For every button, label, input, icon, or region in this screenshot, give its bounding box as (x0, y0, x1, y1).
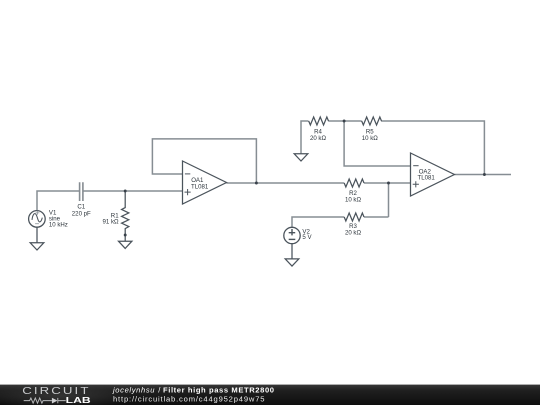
wire OA2 output (454, 174, 511, 176)
ground below R1 (119, 241, 132, 248)
op-amp OA1 (183, 161, 227, 204)
svg-text:jocelynhsu: jocelynhsu (112, 385, 155, 394)
label R5 (362, 128, 379, 142)
resistor R5 (362, 117, 382, 125)
svg-text:20 kΩ: 20 kΩ (345, 229, 362, 236)
label R3 (345, 223, 362, 236)
label V2 (302, 228, 312, 241)
ground below V1 (30, 227, 44, 250)
svg-text:220 pF: 220 pF (72, 210, 91, 217)
footer bar (0, 383, 540, 405)
wire top rail R4 R5 (301, 121, 484, 175)
node dot R4/R5 junction (343, 120, 346, 123)
svg-text:TL081: TL081 (418, 175, 436, 182)
node dot OA2 output (483, 173, 486, 176)
label R1 (103, 212, 120, 225)
label R4 (310, 128, 327, 142)
resistor R1 (122, 191, 129, 241)
svg-text:5 V: 5 V (302, 234, 312, 241)
svg-text:10 kHz: 10 kHz (49, 221, 68, 228)
wire R2/R3 junction vertical (364, 183, 389, 217)
resistor R2 (344, 179, 364, 187)
voltage source V2 (284, 227, 300, 243)
label C1 (72, 203, 91, 217)
wire OA1 feedback loop (152, 139, 256, 183)
op-amp OA2 (411, 153, 455, 196)
node dot R2/R3 junction (387, 182, 390, 185)
svg-text:Filter high pass METR2800: Filter high pass METR2800 (163, 385, 274, 394)
svg-text:91 kΩ: 91 kΩ (103, 218, 120, 225)
resistor R4 (309, 117, 329, 125)
svg-text:10 kΩ: 10 kΩ (362, 135, 379, 142)
wire input net V1/C1/R1 to OA1 + (37, 191, 183, 211)
svg-text:C1: C1 (77, 203, 85, 210)
svg-text:LAB: LAB (66, 395, 91, 405)
node dot OA1 output (255, 182, 258, 185)
node dot R1 top (124, 190, 127, 193)
label R2 (345, 190, 362, 204)
voltage source V1 sine (29, 211, 46, 228)
ground below R4 (294, 154, 308, 161)
resistor R3 (344, 213, 364, 221)
svg-text:TL081: TL081 (191, 184, 209, 191)
svg-text:http://circuitlab.com/c44g952p: http://circuitlab.com/c44g952p49w75 (113, 395, 265, 404)
label OA1 (191, 177, 209, 191)
logo wire resistor diode (24, 398, 66, 403)
node dot R1 bottom (124, 234, 127, 237)
svg-text:20 kΩ: 20 kΩ (310, 135, 327, 142)
wire OA1 output to R2 to OA2 + (227, 182, 411, 184)
svg-text:10 kΩ: 10 kΩ (345, 196, 362, 203)
capacitor C1 (80, 182, 83, 201)
label OA2 (418, 168, 436, 181)
label V1 (49, 209, 68, 228)
wire R4/R5 junction to OA2 - input (344, 121, 410, 166)
wire R3 left to V2 (292, 217, 344, 227)
ground below V2 (285, 244, 299, 266)
